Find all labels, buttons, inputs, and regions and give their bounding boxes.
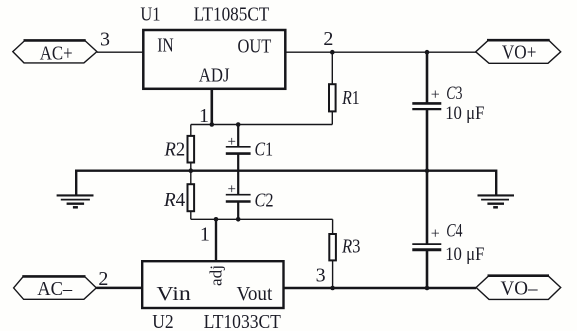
wire node 2 down to R1 (331, 52, 333, 84)
capacitor C4 bottom lead (426, 251, 429, 288)
svg-text:ADJ: ADJ (199, 64, 230, 86)
svg-text:VO–: VO– (501, 278, 539, 300)
svg-text:+: + (431, 225, 440, 242)
svg-text:3: 3 (316, 265, 326, 287)
capacitor C2 plates (226, 194, 251, 196)
svg-text:+: + (228, 134, 236, 150)
svg-text:3: 3 (100, 28, 110, 50)
svg-text:R1: R1 (341, 87, 359, 109)
ground left (57, 195, 94, 207)
svg-text:1: 1 (200, 224, 210, 246)
node C2 bottom junction (236, 217, 241, 222)
resistor R3 (329, 234, 336, 260)
wire R2 to ground bus (190, 163, 192, 171)
svg-text:+: + (228, 182, 236, 198)
resistor R1 (329, 84, 336, 111)
capacitor C3/C4 middle lead (426, 110, 429, 244)
capacitor C3 plates (412, 102, 441, 105)
resistor R2 (188, 136, 195, 163)
svg-text:U2: U2 (152, 311, 173, 331)
svg-text:LT1033CT: LT1033CT (204, 311, 281, 331)
wire ADJ net to R2 (190, 125, 192, 136)
wire U2 adj net horizontal (191, 218, 333, 220)
svg-text:U1: U1 (140, 4, 160, 26)
node R2 ground junction (189, 168, 194, 173)
svg-text:OUT: OUT (238, 35, 272, 57)
op-amp U2 regulator box LT1033CT (142, 261, 283, 308)
svg-text:AC+: AC+ (40, 42, 73, 64)
node 2 junction (330, 50, 335, 55)
svg-text:10 μF: 10 μF (445, 104, 484, 124)
svg-text:R4: R4 (163, 189, 185, 211)
wire ADJ net horizontal (191, 124, 332, 126)
node U1 ADJ junction (210, 122, 215, 127)
wire U2 adj pin 1 (215, 219, 217, 261)
resistor R4 (188, 184, 195, 211)
node C3 top junction (425, 50, 430, 55)
port VO+ (476, 40, 561, 63)
ground right (478, 195, 515, 207)
svg-text:C1: C1 (255, 139, 274, 161)
node U2 adj junction (214, 217, 219, 222)
wire ground bus to R4 (190, 171, 192, 185)
capacitor C3 top lead (426, 52, 429, 103)
svg-text:10 μF: 10 μF (445, 245, 484, 265)
capacitor C1 top lead (237, 125, 239, 147)
svg-text:AC–: AC– (37, 278, 73, 300)
port VO- (476, 276, 561, 300)
svg-text:LT1085CT: LT1085CT (194, 4, 270, 26)
svg-text:Vout: Vout (237, 283, 273, 305)
wire R3 to bottom rail (332, 260, 334, 288)
capacitor C1/C2 middle lead (237, 154, 239, 194)
capacitor C2 bottom lead (237, 202, 239, 219)
svg-text:C4: C4 (446, 221, 462, 241)
wire adj net down to R3 (332, 219, 334, 234)
port AC- (14, 276, 97, 299)
svg-text:C3: C3 (446, 84, 462, 104)
svg-text:Vin: Vin (156, 283, 190, 305)
svg-text:2: 2 (98, 268, 108, 290)
port AC+ (13, 40, 97, 63)
svg-text:adj: adj (207, 265, 226, 286)
svg-text:R3: R3 (341, 236, 360, 258)
capacitor C4 plates (412, 243, 441, 245)
node C4 bottom junction (425, 286, 430, 291)
node C3/C4 ground junction (425, 168, 430, 173)
wire U1 ADJ pin 1 (211, 89, 214, 125)
node 3 junction (330, 286, 335, 291)
node C1 top junction (236, 122, 241, 127)
svg-text:R2: R2 (164, 138, 186, 160)
svg-text:+: + (431, 86, 440, 103)
wire AC- to U2 Vin (96, 287, 142, 290)
capacitor C1 plates (226, 146, 251, 148)
svg-text:1: 1 (199, 105, 209, 127)
wire U1 OUT to VO+ (285, 51, 476, 53)
wire AC+ to U1 IN (97, 51, 143, 53)
svg-text:2: 2 (323, 28, 333, 50)
wire U2 Vout to VO- (284, 287, 477, 290)
op-amp U1 regulator box LT1085CT (143, 30, 285, 89)
wire R4 to node 1 net (190, 211, 192, 219)
svg-text:VO+: VO+ (502, 42, 537, 64)
wire R1 to ADJ net (331, 111, 333, 124)
svg-text:IN: IN (157, 35, 174, 57)
wire ground bus (76, 171, 496, 196)
svg-text:C2: C2 (255, 190, 274, 212)
